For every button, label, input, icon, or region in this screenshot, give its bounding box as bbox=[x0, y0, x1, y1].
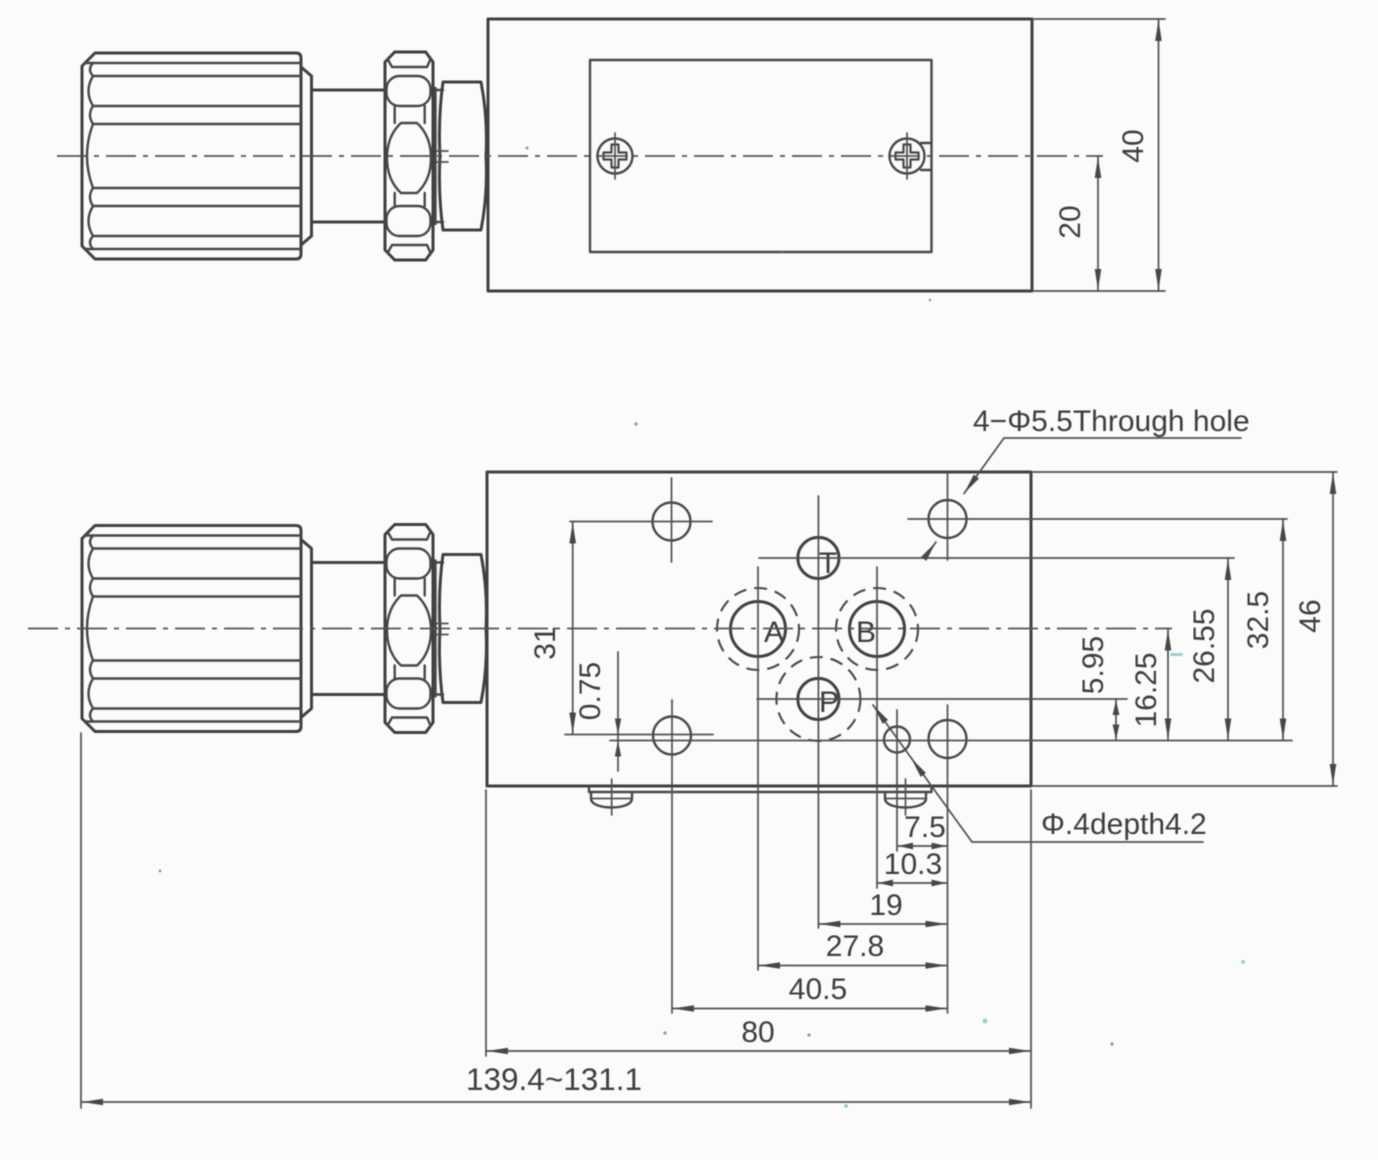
dimension 32.5 bbox=[1242, 519, 1286, 741]
port P bbox=[776, 657, 860, 741]
construction line through port P bbox=[757, 698, 1127, 700]
vertical construction line through ports T and P bbox=[817, 496, 819, 928]
dimension 20 bbox=[1054, 156, 1101, 291]
dimension 31 bbox=[529, 522, 576, 735]
svg-text:P: P bbox=[819, 686, 839, 719]
extension line body bottom edge right bbox=[1031, 785, 1337, 787]
svg-text:A: A bbox=[764, 616, 784, 649]
svg-text:19: 19 bbox=[869, 889, 902, 922]
construction line bottom holes stub bbox=[565, 734, 713, 736]
locating pin hole bbox=[884, 710, 910, 851]
top view: left phillips screw bbox=[598, 133, 633, 179]
construction line bottom holes long bbox=[610, 740, 1292, 742]
callout 4-dia5.5 through hole bbox=[921, 405, 1250, 561]
mounting hole top-left bbox=[653, 478, 691, 562]
dimension 10.3 bbox=[877, 848, 948, 886]
svg-text:139.4~131.1: 139.4~131.1 bbox=[466, 1061, 642, 1097]
construction line through port T bbox=[759, 557, 1234, 559]
top view: right phillips screw bbox=[890, 133, 932, 179]
scan specks bbox=[844, 653, 1245, 1108]
dimension 19 bbox=[818, 889, 947, 927]
mounting hole bottom-right bbox=[929, 705, 967, 1013]
dimension 0.75 bbox=[574, 652, 621, 771]
svg-text:B: B bbox=[856, 616, 876, 649]
port A bbox=[717, 588, 799, 670]
extension line body top edge right bbox=[1031, 471, 1337, 473]
svg-text:40.5: 40.5 bbox=[789, 973, 847, 1006]
bottom view: valve body bbox=[487, 472, 1031, 786]
extension line body left edge down bbox=[485, 790, 487, 1056]
svg-text:0.75: 0.75 bbox=[574, 662, 607, 720]
top view: adjustment knob assembly bbox=[82, 52, 486, 260]
mounting hole bottom-left bbox=[653, 700, 691, 1013]
dimension 16.25 bbox=[1130, 629, 1171, 741]
top view: name plate bbox=[590, 60, 932, 252]
svg-text:10.3: 10.3 bbox=[884, 848, 942, 881]
bottom view: horizontal centerline bbox=[28, 628, 1172, 630]
svg-text:27.8: 27.8 bbox=[826, 930, 884, 963]
svg-text:40: 40 bbox=[1117, 129, 1150, 162]
svg-text:5.95: 5.95 bbox=[1077, 636, 1110, 694]
dimension 46 bbox=[1294, 472, 1336, 786]
top view: horizontal centerline bbox=[57, 155, 1103, 157]
port B bbox=[836, 588, 918, 670]
bottom view: base plate strip bbox=[589, 786, 932, 792]
svg-text:26.55: 26.55 bbox=[1188, 608, 1221, 683]
dimension 40 bbox=[1117, 19, 1162, 291]
svg-text:20: 20 bbox=[1054, 205, 1087, 238]
svg-text:Φ.4depth4.2: Φ.4depth4.2 bbox=[1041, 808, 1207, 841]
dimension 7.5 bbox=[897, 811, 948, 849]
bottom view: right foot bbox=[885, 779, 926, 815]
svg-text:31: 31 bbox=[529, 626, 562, 659]
bottom view: left foot bbox=[591, 779, 632, 815]
svg-text:46: 46 bbox=[1294, 599, 1327, 632]
construction line through top holes right bbox=[908, 518, 1287, 520]
dimension 5.95 bbox=[1077, 636, 1119, 741]
svg-text:16.25: 16.25 bbox=[1130, 652, 1163, 727]
svg-text:32.5: 32.5 bbox=[1242, 591, 1275, 649]
mounting hole top-right bbox=[929, 473, 967, 560]
extension line body right edge down bbox=[1030, 790, 1032, 1108]
vertical construction line through port B bbox=[876, 567, 878, 888]
vertical construction line through port A bbox=[757, 567, 759, 970]
svg-text:4−Φ5.5Through hole: 4−Φ5.5Through hole bbox=[973, 405, 1250, 438]
svg-text:7.5: 7.5 bbox=[904, 811, 946, 844]
construction line through top holes left bbox=[570, 521, 712, 523]
port T bbox=[798, 537, 839, 580]
top view: extension line bottom edge bbox=[1032, 290, 1165, 292]
dimension 26.55 bbox=[1188, 558, 1231, 741]
callout dia4 depth 4.2 bbox=[873, 705, 1207, 842]
bottom view: adjustment knob assembly bbox=[82, 525, 486, 733]
dimension 80 bbox=[486, 1016, 1031, 1054]
dimension 139.4~131.1 bbox=[81, 1061, 1031, 1105]
dimension 27.8 bbox=[758, 930, 948, 969]
dimension 40.5 bbox=[672, 973, 948, 1012]
extension line knob left edge down bbox=[80, 733, 82, 1108]
top view: extension line top edge bbox=[1032, 18, 1165, 20]
top view: valve body bbox=[488, 19, 1032, 291]
svg-text:T: T bbox=[819, 547, 837, 580]
svg-text:80: 80 bbox=[741, 1016, 774, 1049]
